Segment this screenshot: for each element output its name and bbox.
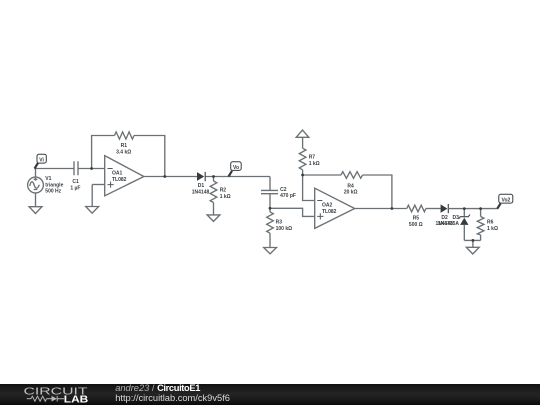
svg-text:R6: R6 xyxy=(487,219,494,225)
svg-text:C1: C1 xyxy=(72,179,79,185)
svg-text:R2: R2 xyxy=(220,188,227,194)
svg-text:Vo2: Vo2 xyxy=(501,197,510,203)
svg-text:D2: D2 xyxy=(441,215,448,221)
svg-text:andre23 / CircuitoE1: andre23 / CircuitoE1 xyxy=(115,383,200,393)
svg-text:R7: R7 xyxy=(309,155,316,161)
svg-text:triangle: triangle xyxy=(45,182,63,188)
svg-text:1 kΩ: 1 kΩ xyxy=(487,226,498,232)
svg-text:TL082: TL082 xyxy=(322,209,337,215)
svg-text:3.4 kΩ: 3.4 kΩ xyxy=(116,149,131,155)
svg-text:1 kΩ: 1 kΩ xyxy=(309,161,320,167)
svg-text:500 Hz: 500 Hz xyxy=(45,188,61,194)
svg-text:100 kΩ: 100 kΩ xyxy=(276,226,293,232)
svg-text:D3: D3 xyxy=(452,215,459,221)
svg-text:Vo: Vo xyxy=(233,165,239,171)
svg-text:1N4735A: 1N4735A xyxy=(438,221,460,227)
svg-text:TL082: TL082 xyxy=(112,177,127,183)
svg-text:D1: D1 xyxy=(198,183,205,189)
svg-text:V1: V1 xyxy=(45,176,51,182)
svg-text:R4: R4 xyxy=(347,183,354,189)
svg-text:20 kΩ: 20 kΩ xyxy=(344,190,358,196)
svg-text:470 pF: 470 pF xyxy=(280,193,296,199)
svg-text:LAB: LAB xyxy=(64,395,89,405)
svg-text:500 Ω: 500 Ω xyxy=(409,222,423,228)
svg-text:R5: R5 xyxy=(413,215,420,221)
svg-text:OA1: OA1 xyxy=(112,171,123,177)
svg-text:1 µF: 1 µF xyxy=(70,185,80,191)
svg-text:1N4148: 1N4148 xyxy=(192,189,210,195)
svg-text:R1: R1 xyxy=(121,143,128,149)
svg-text:Vi: Vi xyxy=(39,157,44,163)
svg-text:http://circuitlab.com/ck9v5f6: http://circuitlab.com/ck9v5f6 xyxy=(115,393,230,403)
svg-text:OA2: OA2 xyxy=(322,203,333,209)
svg-text:R3: R3 xyxy=(276,220,283,226)
svg-text:1 kΩ: 1 kΩ xyxy=(220,194,231,200)
